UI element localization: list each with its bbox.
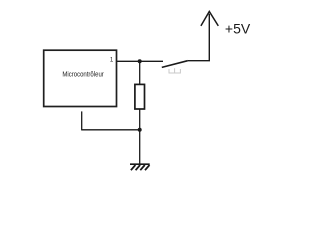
wire bottom horizontal from microcontroller — [82, 129, 140, 131]
wire resistor bottom to ground — [139, 109, 141, 164]
switch S1 lever — [162, 61, 188, 68]
resistor R1 — [135, 84, 145, 109]
node junction bottom — [138, 128, 142, 132]
svg-text:Microcontrôleur: Microcontrôleur — [62, 69, 104, 78]
+5V arrow head — [201, 12, 218, 26]
wire switch to +5V corner — [188, 14, 210, 61]
node junction top — [138, 59, 142, 63]
wire node to resistor top — [139, 61, 141, 84]
svg-text:+5V: +5V — [225, 20, 251, 36]
ground — [130, 164, 150, 170]
wire pin1 to switch — [117, 60, 163, 62]
wire microcontroller bottom pin — [81, 111, 83, 130]
switch S1 button actuator — [169, 68, 180, 73]
microcontroller U1 box — [44, 50, 117, 106]
